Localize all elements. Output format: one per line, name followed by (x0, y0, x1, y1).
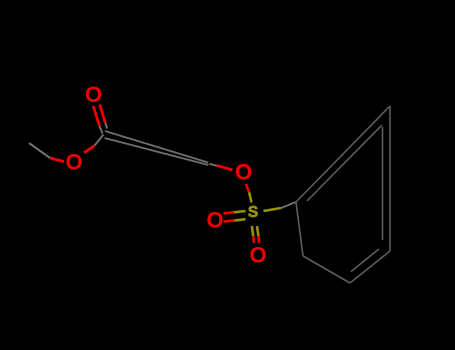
wire: C=O double bond line 1 (93, 106, 102, 134)
svg-text:O: O (85, 82, 102, 107)
wire: chain lower line (105, 138, 209, 165)
svg-text:O: O (206, 207, 223, 232)
aryl ring inner line 3 (351, 249, 379, 272)
wire: S-C aryl bond gray half (281, 202, 296, 208)
wire: S=O left double bond lower line (224, 219, 246, 221)
svg-text:O: O (65, 150, 82, 175)
wire: C-O bridge bond red (210, 164, 233, 170)
wire: S=O left double bond upper line (224, 211, 246, 213)
wire: C=O double bond line 2 (100, 105, 107, 129)
svg-text:O: O (235, 160, 252, 185)
wire: O-S bond red half (246, 184, 249, 192)
node O bridging (235, 160, 252, 185)
wire: S=O down double bond right line (257, 226, 259, 243)
wire: chain upper line (105, 131, 208, 163)
wire: O-S bond olive half (249, 192, 251, 202)
wire: O-C bond red half (84, 146, 94, 153)
node O sulfonyl left (206, 207, 223, 232)
aryl ring inner line 1 (307, 125, 382, 201)
wire: methyl-O bond red half (50, 158, 64, 162)
node O ester (65, 150, 82, 175)
svg-text:S: S (248, 204, 258, 221)
node O carbonyl (85, 82, 102, 107)
wire: methyl CH3 bond gray half (29, 143, 50, 158)
aryl ring outline (296, 106, 390, 283)
node O sulfonyl bottom (249, 242, 266, 267)
wire: S=O down double bond left line (252, 226, 254, 243)
wire: O-C bond gray half (94, 135, 103, 146)
aryl ring inner line 2 (382, 127, 384, 240)
wire: S-C aryl bond olive half (264, 208, 282, 211)
node S sulfonyl (248, 204, 258, 221)
svg-text:O: O (249, 242, 266, 267)
